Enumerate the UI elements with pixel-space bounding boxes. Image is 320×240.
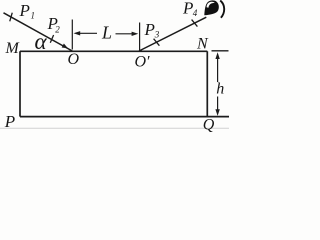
arrowhead on incident ray — [62, 43, 68, 48]
rectangle MNQP (glass slab) — [20, 51, 229, 116]
svg-text:P: P — [19, 1, 30, 20]
L dimension tick above O — [71, 20, 73, 50]
svg-text:P: P — [144, 20, 155, 39]
svg-text:M: M — [5, 40, 21, 57]
h dimension double arrow — [215, 52, 219, 116]
svg-text:h: h — [216, 81, 224, 98]
exit ray O' to eye — [139, 17, 206, 51]
cross tick P1 — [10, 13, 13, 22]
svg-text:Q: Q — [203, 117, 215, 134]
svg-text:4: 4 — [193, 8, 198, 18]
svg-text:O′: O′ — [135, 54, 151, 71]
svg-text:P: P — [4, 112, 15, 131]
cross tick P2 — [50, 35, 53, 43]
svg-text:L: L — [101, 23, 112, 43]
svg-text:O: O — [68, 51, 80, 68]
svg-text:3: 3 — [154, 29, 160, 39]
faint page rule line — [0, 127, 229, 129]
svg-text:2: 2 — [55, 24, 60, 34]
cross tick P4 — [192, 20, 198, 27]
L dimension arrows — [74, 31, 139, 36]
svg-text:N: N — [196, 35, 209, 52]
svg-text:α: α — [35, 29, 48, 54]
dimension tick above h (top right) — [212, 50, 229, 52]
svg-text:1: 1 — [31, 11, 36, 21]
incident ray P1 P2 to O — [4, 13, 73, 51]
eye symbol — [204, 0, 224, 17]
cross tick P3 — [154, 39, 160, 46]
svg-text:P: P — [182, 0, 193, 17]
L dimension tick above O' — [139, 23, 141, 51]
